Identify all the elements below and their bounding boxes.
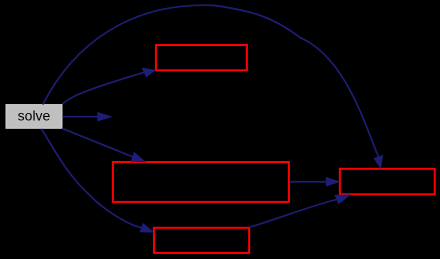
svg-text:solve: solve [18,108,51,124]
